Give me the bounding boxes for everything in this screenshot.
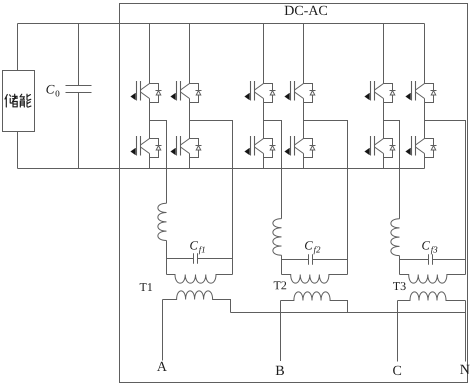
wire: leg 1 midpoint (emitter Q1a to collector Q1b) [149, 99, 151, 139]
label: C0 [46, 85, 54, 94]
inductor Lf1 (filter choke) [158, 203, 167, 240]
wire: Cf2 node down to T2 primary [281, 260, 283, 275]
inductor Lf2 (filter choke) [273, 219, 282, 256]
wire: output B drop [280, 301, 282, 362]
transformer T3 primary winding [400, 275, 466, 284]
wire: storage positive lead to DC+ rail [17, 24, 19, 71]
transistor Q4b (bottom IGBT with freewheel diode) [285, 136, 316, 158]
wire: DC- bottom rail [18, 168, 425, 170]
wire: Lf3 bottom to Cf3 node [399, 256, 401, 260]
capacitor Cf2 [282, 254, 348, 264]
wire: leg 3 midpoint (emitter Q3a to collector Q3b) [263, 99, 265, 139]
wire: leg 4 midpoint (emitter Q4a to collector Q4b) [303, 99, 305, 139]
wire: C0 top lead [78, 24, 80, 86]
wire: leg 6 midpoint (emitter Q6a to collector Q6b) [424, 99, 426, 139]
wire: leg 5 midpoint (emitter Q5a to collector Q5b) [383, 99, 385, 139]
wire: C0 bottom lead [78, 93, 80, 169]
transformer T1 secondary winding [163, 291, 231, 313]
label: T2 [274, 281, 287, 289]
wire: Cf1 node down to T1 primary [166, 259, 168, 275]
transistor Q5a (top IGBT with freewheel diode) [365, 81, 396, 103]
wire: T3 secondary right end down to N terminal [465, 301, 467, 362]
label: T3 [393, 282, 406, 290]
transformer T2 secondary winding [281, 292, 348, 313]
capacitor Cf1 [167, 253, 233, 263]
wire: leg 5 emitter to DC- rail [383, 154, 385, 169]
wire: leg 1 collector drop from DC+ rail [149, 24, 151, 84]
transformer T2 primary winding [282, 275, 348, 284]
transistor Q5b (bottom IGBT with freewheel diode) [365, 136, 396, 158]
wire: Lf1 bottom to Cf1 node [166, 241, 168, 259]
transistor Q4a (top IGBT with freewheel diode) [285, 81, 316, 103]
transformer T3 secondary winding [398, 292, 466, 301]
capacitor C0 [66, 86, 92, 93]
wire: Lf2 bottom to Cf2 node [281, 255, 283, 259]
DC-AC converter block outline [120, 4, 468, 383]
transistor Q3a (top IGBT with freewheel diode) [245, 81, 276, 103]
transistor Q6a (top IGBT with freewheel diode) [406, 81, 437, 103]
wire: output A drop [162, 300, 164, 361]
wire: leg 2 phase tap to filter return node [190, 121, 233, 275]
transistor Q6b (bottom IGBT with freewheel diode) [406, 136, 437, 158]
wire: leg 6 phase tap to filter return node [425, 121, 466, 275]
inductor Lf3 (filter choke) [391, 219, 400, 256]
wire: output C drop [397, 301, 399, 362]
wire: leg 3 emitter to DC- rail [263, 154, 265, 169]
transistor Q2b (bottom IGBT with freewheel diode) [171, 136, 202, 158]
label: C (output terminal) [393, 366, 401, 375]
wire: leg 6 collector drop from DC+ rail [424, 24, 426, 84]
wire: leg 2 collector drop from DC+ rail [189, 24, 191, 84]
wire: leg 2 midpoint (emitter Q2a to collector Q2b) [189, 99, 191, 139]
label: N (output terminal) [460, 365, 469, 374]
wire: leg 5 collector drop from DC+ rail [383, 24, 385, 84]
wire: neutral bus [231, 312, 466, 314]
wire: leg 1 emitter to DC- rail [149, 154, 151, 169]
transformer T1 primary winding [167, 275, 233, 284]
label: Cf2 [305, 241, 313, 249]
label: 储能 (energy storage, drawn glyphs) [5, 94, 31, 107]
label: T1 [140, 283, 152, 291]
label: A (output terminal) [157, 362, 167, 371]
wire: storage negative lead to DC- rail [17, 132, 19, 169]
wire: leg 1 phase tap to filter input node [150, 121, 167, 204]
wire: leg 6 emitter to DC- rail [424, 154, 426, 169]
wire: leg 3 phase tap to filter input node [264, 121, 282, 219]
label: Cf1 [190, 241, 198, 249]
label: Cf3 [422, 241, 430, 249]
energy storage unit box [3, 71, 35, 132]
wire: leg 5 phase tap to filter input node [384, 121, 400, 219]
label: DC-AC [285, 6, 327, 15]
wire: leg 3 collector drop from DC+ rail [263, 24, 265, 84]
transistor Q3b (bottom IGBT with freewheel diode) [245, 136, 276, 158]
wire: leg 4 phase tap to filter return node [304, 121, 348, 275]
transistor Q2a (top IGBT with freewheel diode) [171, 81, 202, 103]
capacitor Cf3 [400, 254, 466, 264]
wire: DC+ top rail [18, 23, 425, 25]
transistor Q1b (bottom IGBT with freewheel diode) [131, 136, 162, 158]
wire: Cf3 node down to T3 primary [399, 260, 401, 275]
wire: leg 4 emitter to DC- rail [303, 154, 305, 169]
label: B (output terminal) [276, 366, 284, 375]
wire: leg 4 collector drop from DC+ rail [303, 24, 305, 84]
transistor Q1a (top IGBT with freewheel diode) [131, 81, 162, 103]
wire: leg 2 emitter to DC- rail [189, 154, 191, 169]
